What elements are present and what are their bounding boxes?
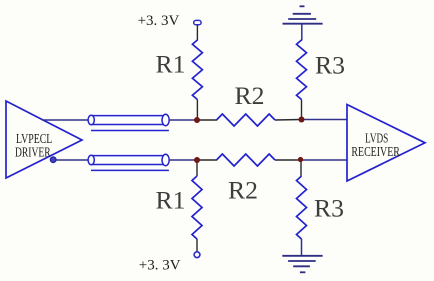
pin node J3 to R2 bottom <box>197 159 217 161</box>
svg-text:R3: R3 <box>314 195 344 222</box>
resistor R3 (bottom) zigzag <box>297 176 307 239</box>
power symbol +3.3V (top) <box>194 20 201 24</box>
op-amp U2 LVDS RECEIVER triangle <box>347 105 425 182</box>
node J3 junction <box>194 157 200 163</box>
node J2 junction <box>299 117 305 123</box>
wire node J4 to receiver <box>301 159 348 161</box>
pin R1 bottom to +3.3V terminal <box>196 239 198 252</box>
pin R3 bottom to ground <box>301 239 303 256</box>
wire driver out+ to T1 <box>42 119 89 121</box>
svg-text:R1: R1 <box>156 52 186 79</box>
label LVDS RECEIVER <box>351 130 400 158</box>
pin node J3 to R1 bottom <box>196 160 198 176</box>
inversion bubble on driver out- <box>50 157 56 163</box>
resistor R2 (bottom) zigzag <box>217 154 276 166</box>
node J1 junction <box>194 117 200 123</box>
svg-text:+3. 3V: +3. 3V <box>139 257 181 273</box>
wire node J2 to receiver <box>302 119 348 121</box>
resistor R1 (bottom) zigzag <box>192 176 202 239</box>
pin R2 bottom to node J4 <box>275 159 301 161</box>
ground (bottom right) <box>282 256 322 272</box>
transmission line T1 (top) <box>88 114 169 130</box>
svg-text:R1: R1 <box>156 187 186 214</box>
svg-text:DRIVER: DRIVER <box>15 144 51 159</box>
ground (top right) <box>283 6 323 40</box>
node J4 junction <box>298 157 303 162</box>
wire driver out- to T2 <box>56 159 89 161</box>
pin node J4 to R3 bottom <box>300 160 302 176</box>
pin R3 top to node J2 <box>301 100 303 120</box>
resistor R1 (top) zigzag <box>192 40 202 100</box>
svg-text:R2: R2 <box>228 177 258 204</box>
svg-text:+3. 3V: +3. 3V <box>138 13 180 29</box>
pin from +3.3V to R1 top <box>196 25 198 41</box>
pin R2 top to node J2 <box>275 119 302 122</box>
op-amp U1 LVPECL DRIVER triangle <box>6 101 82 178</box>
pin R1 top to node J1 <box>196 100 198 121</box>
resistor R3 (top) zigzag <box>297 40 307 100</box>
transmission line T2 (bottom) <box>88 154 169 170</box>
resistor R2 (top) zigzag <box>217 114 276 126</box>
svg-text:RECEIVER: RECEIVER <box>351 144 400 159</box>
wire T2 to node J3 <box>169 159 197 161</box>
svg-text:R2: R2 <box>235 83 265 110</box>
svg-text:R3: R3 <box>315 53 345 80</box>
wire T1 to node J1 <box>169 119 197 121</box>
power terminal +3.3V (bottom) <box>194 252 200 258</box>
label LVPECL DRIVER <box>15 131 52 159</box>
pin node J1 to R2 top <box>197 119 217 121</box>
